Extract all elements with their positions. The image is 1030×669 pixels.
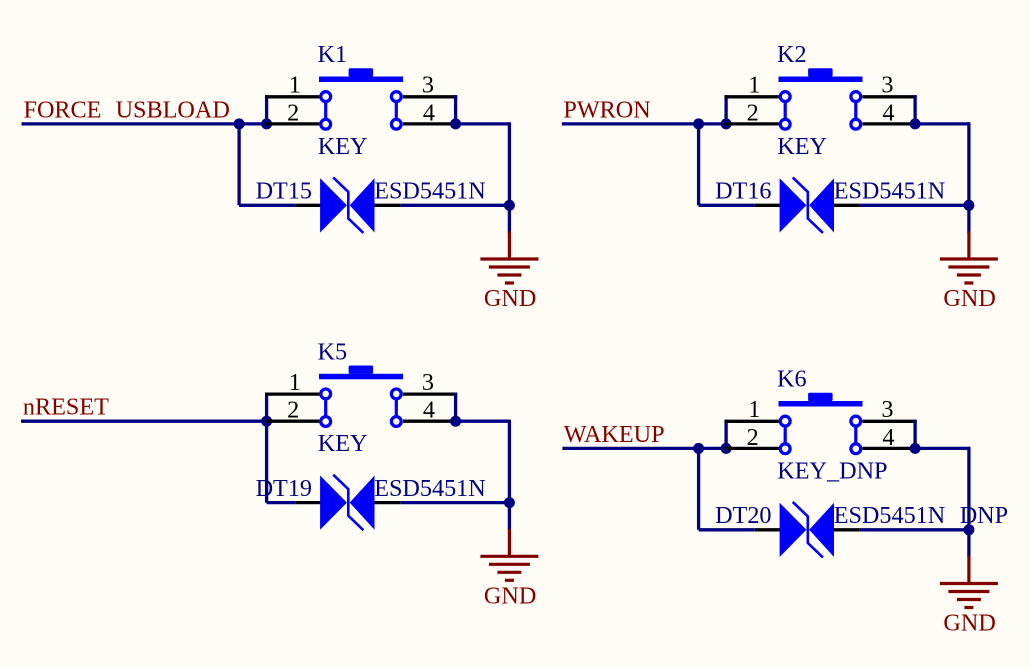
svg-text:GND: GND: [943, 285, 995, 312]
pin 2: [725, 447, 779, 450]
pushbutton K1: [319, 68, 403, 82]
pin diode left: [755, 204, 780, 207]
svg-text:4: 4: [882, 424, 894, 451]
wire diode row right: [860, 204, 969, 207]
pushbutton K2: [779, 68, 863, 82]
svg-text:DT15: DT15: [256, 178, 312, 205]
wire diode row right: [400, 204, 509, 207]
svg-text:3: 3: [422, 369, 434, 396]
pin 3: [863, 95, 917, 98]
TVS diode DT20: [780, 502, 834, 558]
wire branch to diode: [697, 448, 700, 529]
svg-text:nRESET: nRESET: [23, 394, 109, 421]
wire branch to diode: [237, 124, 240, 205]
junction: [261, 416, 272, 427]
ground: [940, 232, 998, 284]
junction: [504, 497, 515, 508]
pin diode left: [295, 204, 320, 207]
pin 3: [863, 420, 917, 423]
svg-text:1: 1: [289, 369, 301, 396]
wire box left: [724, 95, 727, 124]
pin 4: [863, 447, 917, 450]
pin 4: [403, 420, 457, 423]
svg-text:2: 2: [747, 424, 759, 451]
junction: [963, 524, 974, 535]
junction: [693, 443, 704, 454]
pin 4: [403, 122, 457, 125]
wire net WAKEUP: [562, 447, 726, 450]
svg-text:GND: GND: [484, 285, 536, 312]
wire box left: [724, 420, 727, 449]
pushbutton K6: [779, 393, 863, 407]
svg-text:3: 3: [422, 72, 434, 99]
ground: [480, 529, 538, 581]
junction: [693, 118, 704, 129]
svg-text:KEY: KEY: [318, 133, 368, 160]
wire box right: [454, 95, 457, 124]
svg-text:4: 4: [423, 397, 435, 424]
svg-text:2: 2: [287, 99, 299, 126]
TVS diode DT15: [320, 177, 374, 233]
svg-text:1: 1: [748, 72, 760, 99]
wire to gnd column: [456, 420, 510, 423]
svg-text:2: 2: [747, 99, 759, 126]
svg-text:ESD5451N: ESD5451N: [374, 178, 486, 205]
wire to gnd column: [915, 122, 969, 125]
pin 2: [725, 122, 779, 125]
svg-text:DT20: DT20: [715, 502, 771, 529]
pin 1: [265, 392, 319, 395]
svg-text:3: 3: [881, 396, 893, 423]
svg-text:WAKEUP: WAKEUP: [564, 421, 665, 448]
pin 3: [403, 392, 457, 395]
ground: [480, 232, 538, 284]
wire to gnd column: [915, 447, 969, 450]
junction: [721, 118, 732, 129]
ground: [940, 556, 998, 608]
svg-text:K5: K5: [318, 338, 348, 365]
wire diode row left: [267, 501, 296, 504]
pushbutton K5: [319, 366, 403, 380]
svg-text:PWRON: PWRON: [563, 96, 650, 123]
svg-text:1: 1: [748, 396, 760, 423]
svg-text:4: 4: [423, 99, 435, 126]
svg-text:K6: K6: [777, 366, 807, 393]
junction: [261, 118, 272, 129]
TVS diode DT19: [320, 475, 374, 531]
svg-text:USBLOAD: USBLOAD: [116, 96, 230, 123]
svg-text:ESD5451N: ESD5451N: [374, 475, 486, 502]
wire branch to diode: [697, 124, 700, 205]
pin diode right: [374, 204, 400, 207]
junction: [910, 118, 921, 129]
junction: [504, 200, 515, 211]
pin 1: [725, 420, 779, 423]
svg-text:K2: K2: [777, 41, 807, 68]
svg-text:FORCE: FORCE: [24, 96, 102, 123]
wire gnd riser: [967, 447, 970, 558]
svg-text:GND: GND: [484, 582, 536, 609]
pin 1: [265, 95, 319, 98]
pin diode left: [755, 528, 780, 531]
pin 2: [265, 420, 319, 423]
junction: [450, 416, 461, 427]
wire to gnd column: [456, 122, 510, 125]
wire diode row right: [400, 501, 509, 504]
svg-text:KEY: KEY: [318, 430, 368, 457]
wire branch to diode: [265, 393, 268, 503]
wire net nRESET: [21, 420, 267, 423]
junction: [234, 118, 245, 129]
junction: [963, 200, 974, 211]
wire box right: [913, 95, 916, 124]
wire gnd riser: [508, 420, 511, 531]
wire gnd riser: [967, 122, 970, 233]
wire box left: [265, 95, 268, 124]
wire box right: [913, 420, 916, 449]
pin diode right: [374, 501, 400, 504]
pin 2: [265, 122, 319, 125]
svg-text:K1: K1: [318, 41, 348, 68]
junction: [450, 118, 461, 129]
pin diode right: [834, 528, 860, 531]
wire net FORCE_USBLOAD: [22, 122, 267, 125]
junction: [721, 443, 732, 454]
svg-text:KEY: KEY: [777, 133, 827, 160]
pin 4: [863, 122, 917, 125]
svg-text:ESD5451N: ESD5451N: [834, 502, 946, 529]
pin diode left: [295, 501, 320, 504]
svg-text:3: 3: [881, 72, 893, 99]
svg-text:GND: GND: [943, 610, 995, 637]
pin 1: [725, 95, 779, 98]
wire box right: [454, 393, 457, 422]
svg-text:DT16: DT16: [715, 178, 771, 205]
svg-text:ESD5451N: ESD5451N: [834, 178, 946, 205]
TVS diode DT16: [780, 177, 834, 233]
junction: [910, 443, 921, 454]
svg-text:4: 4: [882, 99, 894, 126]
pin diode right: [834, 204, 860, 207]
wire net PWRON: [562, 122, 726, 125]
wire gnd riser: [508, 122, 511, 233]
svg-text:1: 1: [289, 72, 301, 99]
svg-text:DT19: DT19: [256, 475, 312, 502]
pin 3: [403, 95, 457, 98]
wire diode row right: [860, 528, 969, 531]
svg-text:KEY_DNP: KEY_DNP: [777, 457, 887, 484]
svg-text:2: 2: [287, 397, 299, 424]
